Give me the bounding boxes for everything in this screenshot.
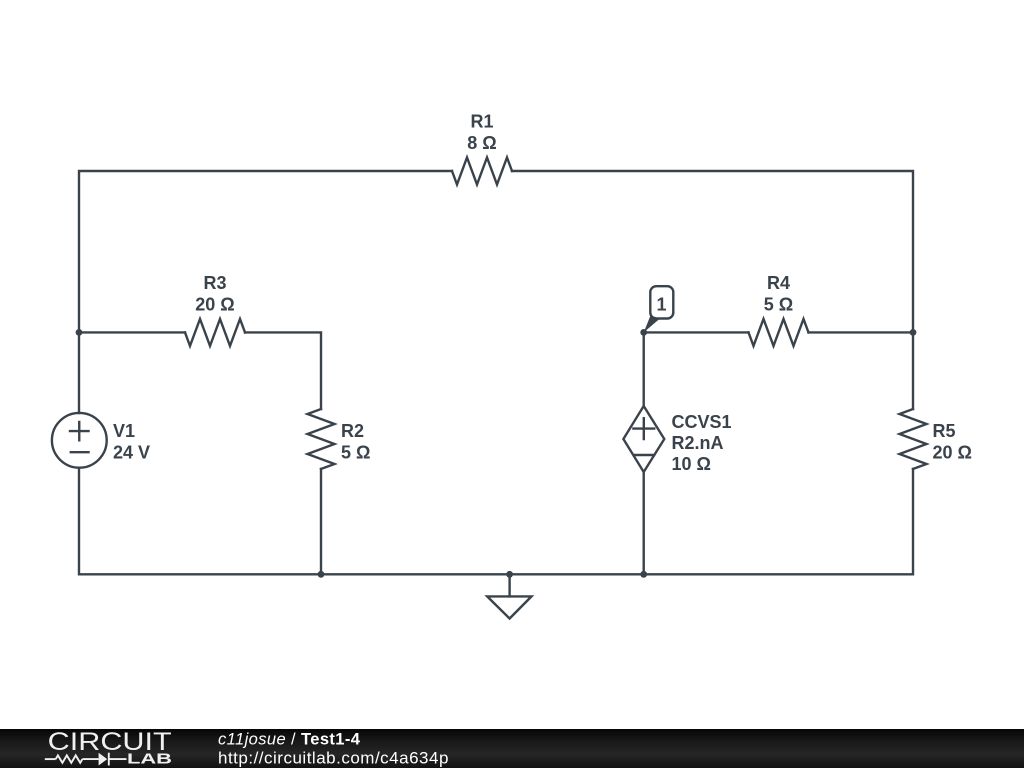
svg-text:R3: R3 bbox=[203, 273, 226, 293]
svg-text:R1: R1 bbox=[470, 112, 493, 132]
svg-text:10 Ω: 10 Ω bbox=[672, 454, 711, 474]
resistor R2 zigzag bbox=[308, 409, 335, 469]
logo lead-in wire bbox=[45, 758, 56, 760]
junction node at V1/R3 bbox=[76, 329, 83, 336]
junction node 1 bbox=[640, 329, 647, 336]
svg-text:c11josue / Test1-4: c11josue / Test1-4 bbox=[218, 731, 361, 749]
wire R4 to right vertical bbox=[809, 331, 914, 333]
logo wire to diode bbox=[82, 758, 98, 760]
wire node 1 down to CCVS1 top bbox=[643, 332, 645, 406]
wire top-left loop: left vertical + top rail left of R1 bbox=[79, 171, 452, 413]
voltage source V1 circle bbox=[52, 413, 107, 468]
wire node A to R3 bbox=[79, 331, 185, 333]
junction node CCVS1/bottom rail bbox=[640, 571, 647, 578]
svg-text:5 Ω: 5 Ω bbox=[764, 295, 793, 315]
resistor R5 zigzag bbox=[900, 409, 927, 469]
svg-text:LAB: LAB bbox=[127, 752, 172, 768]
footer bar bbox=[0, 729, 1024, 768]
ground triangle bbox=[487, 596, 531, 618]
resistor R1 zigzag bbox=[452, 158, 512, 185]
V1 minus sign bbox=[71, 451, 89, 453]
resistor R4 zigzag bbox=[749, 319, 809, 346]
svg-text:R2: R2 bbox=[341, 421, 364, 441]
svg-text:5 Ω: 5 Ω bbox=[341, 443, 370, 463]
svg-text:1: 1 bbox=[656, 295, 666, 315]
logo resistor zigzag bbox=[56, 755, 83, 762]
CCVS1 minus sign bbox=[634, 454, 654, 456]
junction node at R4/R5 bbox=[910, 329, 917, 336]
svg-text:24 V: 24 V bbox=[113, 443, 150, 463]
junction node ground bbox=[506, 571, 513, 578]
logo wire to LAB bbox=[109, 758, 127, 760]
node 1 flag box bbox=[650, 286, 673, 318]
svg-text:CCVS1: CCVS1 bbox=[672, 412, 732, 432]
dependent source CCVS1 diamond bbox=[623, 406, 664, 472]
resistor R3 zigzag bbox=[185, 319, 245, 346]
node 1 flag tail bbox=[644, 316, 660, 333]
svg-text:20 Ω: 20 Ω bbox=[195, 295, 234, 315]
svg-text:V1: V1 bbox=[113, 421, 135, 441]
svg-text:R2.nA: R2.nA bbox=[672, 433, 724, 453]
CCVS1 plus sign bbox=[633, 418, 654, 439]
svg-text:R5: R5 bbox=[933, 421, 956, 441]
svg-text:http://circuitlab.com/c4a634p: http://circuitlab.com/c4a634p bbox=[218, 748, 449, 767]
wire R2 bottom to bottom rail bbox=[320, 469, 322, 574]
wire top rail right of R1 + right vertical down to R5 bbox=[512, 171, 913, 409]
logo diode triangle bbox=[99, 753, 108, 766]
svg-text:R4: R4 bbox=[767, 273, 790, 293]
ground stem bbox=[508, 574, 510, 596]
wire CCVS1 bottom to bottom rail bbox=[643, 472, 645, 574]
logo diode cathode bar bbox=[108, 753, 110, 766]
junction node R2/bottom rail bbox=[318, 571, 325, 578]
svg-text:20 Ω: 20 Ω bbox=[933, 443, 972, 463]
wire bottom rail with left and right risers bbox=[79, 468, 913, 575]
wire node 1 to R4 bbox=[644, 331, 749, 333]
svg-text:8 Ω: 8 Ω bbox=[467, 133, 496, 153]
V1 plus sign bbox=[70, 422, 89, 440]
wire R3 to R2 top corner bbox=[245, 332, 321, 409]
